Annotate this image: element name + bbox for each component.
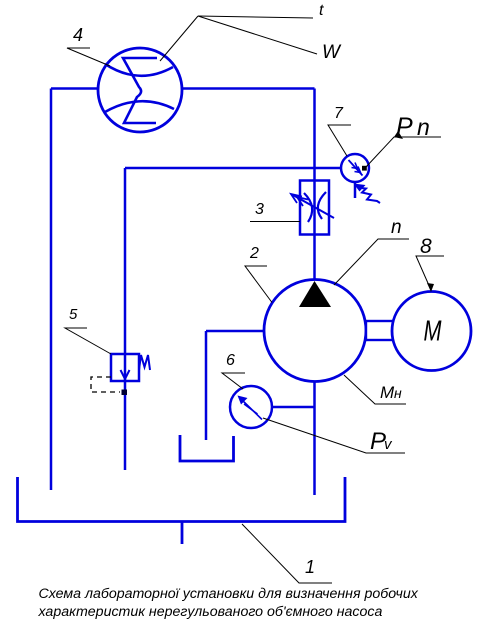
svg-text:n: n xyxy=(391,217,402,238)
main tank 1 xyxy=(18,477,346,522)
pressure gauge 7 circle xyxy=(341,154,369,182)
pump 2 circle xyxy=(264,280,366,382)
pressure gauge 7 bottom stub xyxy=(354,182,357,198)
svg-text:t: t xyxy=(319,2,324,19)
flow meter FM4 top arc xyxy=(105,64,173,76)
leader for label Pn with arrow to gauge xyxy=(362,131,441,171)
main tank 1 bottom stub xyxy=(181,522,184,544)
leader for label 6 xyxy=(222,373,245,389)
wire gauge 6 horizontal to return pipe xyxy=(271,406,316,409)
leader for label 3 xyxy=(250,221,300,223)
wire top horizontal from left pipe to main vertical xyxy=(51,87,315,90)
relief valve 5 spring zigzag xyxy=(139,355,150,370)
leader for label 5 xyxy=(65,328,111,354)
leader lines to labels t and W xyxy=(160,16,317,61)
label Pv xyxy=(370,428,393,455)
svg-text:М: М xyxy=(380,383,395,402)
leader for label 4 xyxy=(67,48,110,66)
wire relief-valve vertical pipe xyxy=(124,168,127,470)
label Mn xyxy=(380,383,402,402)
svg-text:1: 1 xyxy=(305,557,315,577)
wire branch horizontal to gauge 7 xyxy=(125,167,344,170)
svg-text:M: M xyxy=(424,316,443,348)
relief valve 5 pilot junction dot xyxy=(122,390,128,396)
label Pn xyxy=(396,113,430,141)
wire pump bottom return vertical into tank xyxy=(313,380,316,495)
throttle valve 3 left arc xyxy=(304,193,312,222)
svg-text:2: 2 xyxy=(249,245,259,262)
wire suction horizontal to pump left port xyxy=(206,330,266,333)
svg-text:7: 7 xyxy=(334,105,344,122)
svg-text:n: n xyxy=(417,114,430,140)
gauge 6 circle xyxy=(230,386,272,428)
svg-text:4: 4 xyxy=(73,25,83,45)
small tank under suction pipe xyxy=(180,435,234,461)
svg-text:8: 8 xyxy=(420,235,432,258)
flow meter FM4 sigma zigzag xyxy=(123,58,157,123)
flow meter FM4 bottom arc xyxy=(105,101,174,112)
leader for label 7 xyxy=(328,125,351,156)
svg-text:Схема лабораторної установки д: Схема лабораторної установки для визначе… xyxy=(39,586,419,602)
svg-text:характеристик нерегульованого: характеристик нерегульованого об'ємного … xyxy=(38,604,383,620)
wire left vertical pipe into tank xyxy=(50,89,53,491)
svg-text:W: W xyxy=(322,42,342,63)
motor 8 circle xyxy=(392,292,471,371)
svg-text:5: 5 xyxy=(69,306,78,323)
throttle valve 3 right arc xyxy=(318,192,326,219)
throttle valve 3 body xyxy=(300,181,329,235)
svg-text:3: 3 xyxy=(255,201,264,218)
svg-text:P: P xyxy=(396,113,413,141)
leader for label Pv xyxy=(263,418,405,453)
leader for label n xyxy=(334,239,409,285)
flow meter FM4 circle xyxy=(98,48,182,132)
pump 2 triangle xyxy=(299,281,331,307)
leader for label Mn xyxy=(344,375,406,404)
relief valve 5 body xyxy=(111,354,139,381)
gauge 6 needle xyxy=(238,396,263,420)
leader for label 8 with arrowhead xyxy=(416,256,444,292)
wire suction vertical into small tank xyxy=(205,331,208,440)
pressure gauge 7 zigzag arrow xyxy=(354,184,381,204)
relief valve 5 arrowhead inside xyxy=(121,370,130,379)
throttle valve 3 adjusting arrow xyxy=(291,194,334,218)
pressure gauge 7 needle xyxy=(349,160,363,176)
leader for label 1 xyxy=(242,524,332,583)
coupling between pump and motor xyxy=(366,321,393,340)
leader for label 2 xyxy=(245,266,272,303)
wire main vertical from top corner to pump top xyxy=(313,89,316,283)
svg-text:н: н xyxy=(394,385,402,401)
relief valve 5 pilot dashed line xyxy=(91,377,120,392)
svg-text:6: 6 xyxy=(226,352,235,369)
